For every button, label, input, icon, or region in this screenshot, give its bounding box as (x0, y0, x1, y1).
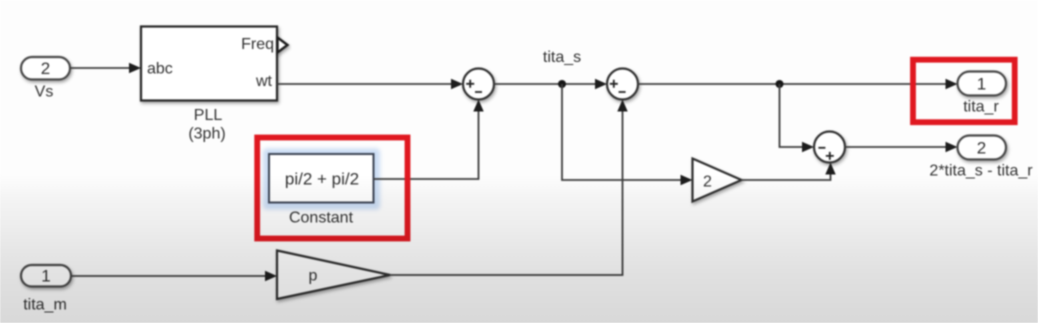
wire junction down to sum3 (780, 84, 815, 152)
sum block S1 (463, 69, 494, 100)
wire wt to sum1 (277, 79, 463, 89)
wire Vs to PLL abc (70, 63, 141, 73)
wire gain2 to sum3 bottom (742, 163, 836, 181)
Constant block (269, 154, 374, 203)
gain block G1 (value p) (277, 251, 390, 300)
wire sum3 to outport 2 (845, 142, 958, 152)
wire tita_m to gain p (71, 271, 277, 281)
red annotation rectangle around outport 1 (913, 60, 1015, 122)
wire sum1 to sum2 (494, 79, 607, 89)
sum block S2 (607, 69, 638, 100)
wire gain p to sum2 bottom (390, 100, 628, 276)
junction node on tita_r line (776, 80, 784, 88)
sum block S3 (814, 132, 845, 163)
inport 2 (Vs) (21, 57, 70, 80)
wire junction tita_s down to gain2 (562, 84, 693, 185)
gain block G2 (value 2) (693, 159, 742, 202)
outport 1 (tita_r) (958, 72, 1007, 96)
wire sum2 to outport 1 (638, 79, 958, 89)
junction node tita_s (558, 80, 566, 88)
Freq unconnected output arrow (278, 38, 288, 53)
inport 1 (tita_m) (21, 265, 71, 287)
wire Constant to sum1 bottom (374, 100, 484, 180)
PLL block U1 (141, 27, 277, 101)
red annotation rectangle around Constant (257, 138, 407, 239)
Constant block selection glow (263, 149, 380, 210)
outport 2 (2*tita_s - tita_r) (958, 136, 1007, 160)
